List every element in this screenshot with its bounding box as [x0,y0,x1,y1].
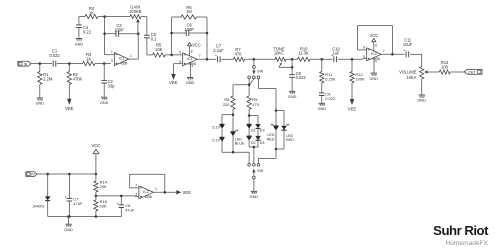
subtitle HomemadeFX [445,240,488,247]
title Suhr Riot [433,223,489,238]
svg-text:100K: 100K [355,76,365,81]
svg-text:1N4001: 1N4001 [32,205,44,209]
capacitor C4 0.22 [76,17,92,39]
node F junction [103,15,106,18]
node L junction [291,58,294,61]
wire left throw down [248,79,250,96]
node A junction [39,62,42,65]
svg-text:VEE: VEE [348,107,357,112]
zener diode 5.1V upper [212,124,224,129]
svg-text:GND: GND [36,102,45,106]
diode D2 [247,136,256,145]
svg-text:HomemadeFX: HomemadeFX [445,240,488,247]
svg-text:6.25K: 6.25K [325,76,336,81]
capacitor C3 100P [105,23,139,37]
wire SW2 pole to ground [253,179,255,191]
wire D3 to D4 [257,128,259,136]
node H junction [170,32,208,35]
pin 4 wire to ground [190,62,192,77]
svg-text:OUT: OUT [468,70,476,74]
label SW2 [257,168,264,173]
ground power [64,224,73,232]
svg-text:GND: GND [250,195,259,199]
LED RED right [282,124,295,142]
pin 8 label [191,49,193,53]
svg-text:SW: SW [257,168,264,173]
VCC symbol IC1b [187,43,200,56]
svg-text:0.022: 0.022 [49,53,60,58]
diode D1 [247,124,256,132]
svg-text:47uF: 47uF [73,201,83,206]
TONE wiper [279,63,292,67]
svg-text:VCC: VCC [369,33,378,38]
input jack IN [18,61,31,66]
pin 4 wire ic2b [373,58,375,73]
svg-text:5: 5 [179,60,181,64]
resistor R6 1M [172,5,207,33]
svg-text:GND: GND [186,81,195,85]
ground under C8 [288,91,297,99]
capacitor C7 47uF power [65,174,83,217]
wire VOLUME to ground [421,79,423,95]
svg-text:1: 1 [155,187,157,191]
diode D4 [256,136,265,145]
svg-text:VCC: VCC [91,143,100,148]
resistor R8 220 [223,96,235,115]
capacitor C2 33p [101,64,115,97]
potentiometer VOLUME 10KA [399,67,424,81]
ground under IC1b [186,78,195,86]
svg-text:0.022: 0.022 [325,96,336,101]
feedback wire IC2b [358,26,393,55]
wire R7 to TONE [245,58,276,60]
ground under C4 [75,39,84,47]
svg-text:20K: 20K [100,184,107,189]
node G junction [170,54,173,57]
svg-text:5.1V: 5.1V [212,125,220,129]
switch SW2 pole circle [253,176,256,179]
svg-text:IN: IN [24,62,28,66]
wire 9V rail [37,173,96,175]
LED RED left [267,124,279,141]
left group bottom rail [222,135,249,163]
resistor R4 1K [79,6,105,19]
svg-text:2.2M: 2.2M [43,77,53,82]
capacitor C11 10uF [403,38,413,58]
svg-text:VEE: VEE [183,190,192,195]
switch SW actuator [252,68,255,74]
svg-text:100KB: 100KB [129,9,142,14]
wire right throw to LEDs [259,79,277,111]
VEE arrow IC1b [169,74,178,85]
svg-text:470: 470 [252,102,259,107]
wire C10 to IC2 pin 5 [338,58,367,61]
middle group bottom rail [249,140,258,164]
node E junction [137,32,140,35]
svg-text:1uF: 1uF [332,51,340,56]
svg-text:0.1: 0.1 [151,37,157,42]
ground under C2 [100,97,109,105]
resistor R7 470 [234,47,245,62]
pin 7 label ic2b [383,49,385,53]
capacitor C6 100P [172,22,207,59]
svg-text:7: 7 [383,49,385,53]
wire VEE tap to IC2a [96,195,139,198]
switch SW throw circles [248,76,260,79]
svg-text:2.2uF: 2.2uF [213,48,224,53]
svg-text:0.22: 0.22 [83,29,92,34]
svg-text:7: 7 [199,54,201,58]
wire R3 to IC1 pin 3 [95,63,111,65]
svg-text:8: 8 [375,43,377,47]
svg-text:IC1: IC1 [187,57,193,61]
middle group top rail [248,114,258,124]
wire IC2b out [381,53,405,55]
pin 2 label [111,50,113,54]
svg-text:10KC: 10KC [274,51,284,56]
svg-text:BLUE: BLUE [235,142,245,146]
svg-text:GND: GND [417,99,426,103]
svg-text:3: 3 [111,59,113,63]
pin 6 label [179,50,181,54]
node T junction [120,195,123,198]
svg-text:4558: 4558 [120,62,128,66]
resistor R10 11.3K [298,46,311,61]
ground under VOLUME [417,95,426,103]
svg-text:5: 5 [363,55,365,59]
diode 1N4001 [32,174,50,217]
VEE arrow under R12 [348,99,357,112]
switch SW2 actuator [252,169,255,177]
svg-text:RED: RED [286,138,294,142]
wire IC1b out [197,58,216,60]
node C junction [103,62,106,65]
svg-text:IC1: IC1 [119,57,125,61]
svg-text:IC2: IC2 [371,52,377,56]
pin 8 label ic2b [375,43,377,47]
GAIN wiper [136,19,139,34]
power jack 9V [26,172,37,177]
svg-text:9V: 9V [30,173,35,177]
wire R10 to C10 [310,58,333,60]
svg-text:4: 4 [375,60,377,64]
wire C11 to VOLUME [410,54,422,66]
wire D1 to D2 [248,128,250,136]
node S junction VEE tap [95,195,98,198]
VEE arrow under R2 [65,99,74,112]
pin 6 label ic2b [363,45,365,49]
ground under C9 [318,103,327,111]
ground under SW2 [250,191,259,199]
potentiometer TONE 10KC [273,46,286,61]
wire IN to node A [31,63,52,65]
node I junction [206,58,209,61]
right group bottom rail [259,130,285,164]
node J junction [253,58,256,61]
svg-text:GND: GND [100,101,109,105]
ground under IC2b [369,73,378,81]
wire C5 to R5 [147,38,153,55]
svg-text:GND: GND [288,95,297,99]
svg-text:4: 4 [191,64,193,68]
svg-text:1: 1 [130,54,132,58]
wire R4 to GAIN [105,16,130,18]
VEE arrow power [176,190,191,195]
svg-text:Suhr Riot: Suhr Riot [433,223,489,238]
wire R13 to OUT [450,71,464,73]
right group top rail [275,109,284,126]
node D junction [103,32,106,35]
resistor R2 470K [67,64,82,99]
label SW [257,69,264,74]
node O junction [391,53,394,56]
node R junction [95,173,98,176]
node P junction [46,173,49,176]
wire R5 to IC1 pin 6 [165,54,183,56]
op-amp IC2b [367,48,382,61]
svg-text:20K: 20K [100,204,107,209]
node U junction [164,191,167,194]
svg-text:D1: D1 [251,128,256,132]
svg-text:8: 8 [191,49,193,53]
svg-text:1K: 1K [86,56,91,61]
svg-text:VEE: VEE [169,80,178,85]
svg-text:47uF: 47uF [125,207,135,212]
node M junction [321,58,324,61]
svg-text:33p: 33p [108,84,116,89]
left group top rail [222,113,234,131]
wire to R8 [233,85,249,96]
svg-text:D2: D2 [251,141,256,145]
capacitor C8 47uF power [117,196,135,217]
VCC symbol IC2b [369,33,378,51]
svg-text:220: 220 [223,102,230,107]
svg-text:VCC: VCC [192,43,201,48]
wire middle throw join [250,79,254,85]
wire node J to SW pole [253,59,255,65]
resistor R14 20K [94,174,108,196]
svg-text:IC2: IC2 [143,190,149,194]
svg-text:4558: 4558 [145,195,153,199]
svg-text:2: 2 [135,183,137,187]
svg-text:5.1V: 5.1V [212,138,220,142]
resistor R5 10K [153,42,165,57]
pin 2 label ic2a [135,183,137,187]
svg-text:D3: D3 [260,128,265,132]
svg-text:1M: 1M [186,9,192,14]
potentiometer GAIN 100KB [129,5,142,19]
pin 5 label [179,60,181,64]
pin 5 wire to VEE [174,64,183,74]
svg-text:0.022: 0.022 [296,75,307,80]
pin 5 label ic2b [363,55,365,59]
node Q junction [68,173,71,176]
op-amp IC2a [139,186,154,199]
node B junction [68,62,71,65]
feedback wire IC2a [130,174,165,192]
capacitor C10 1uF [332,46,341,62]
svg-text:SW: SW [257,69,264,74]
svg-text:D4: D4 [260,141,265,145]
resistor R13 100 [439,60,450,74]
capacitor C7 2.2uF [213,44,224,63]
wire C7 to R7 [222,58,234,60]
pin 3 label [111,59,113,63]
svg-text:3: 3 [135,193,137,197]
svg-text:6: 6 [363,45,365,49]
capacitor C1 0.022 [49,49,60,67]
wire pin 2 feedback [105,17,115,55]
svg-text:10K: 10K [155,47,163,52]
svg-text:100: 100 [441,64,449,69]
node K junction [248,83,251,86]
svg-text:10KA: 10KA [406,75,416,80]
svg-text:1K: 1K [89,11,94,16]
svg-text:2: 2 [111,50,113,54]
switch SW pole circle [253,66,256,69]
svg-text:GND: GND [75,42,84,46]
node N junction [351,58,354,61]
svg-text:100P: 100P [184,27,194,32]
svg-text:470: 470 [235,51,243,56]
VCC rail up [95,154,97,174]
ground under R1 [36,98,45,106]
feedback loop stage2 [171,17,173,55]
diode D3 [256,124,265,132]
pin 3 label ic2a [135,193,137,197]
svg-text:GND: GND [64,228,73,232]
op-amp IC1b [183,53,198,66]
wire TONE to R10 [286,58,298,60]
svg-text:6: 6 [179,50,181,54]
capacitor C9 0.022 [319,91,336,103]
VOLUME wiper [424,70,439,73]
pin 4 label ic2b [375,60,377,64]
svg-text:10uF: 10uF [403,42,413,47]
wire node L down [291,59,294,74]
zener diode 5.1V lower [212,137,224,142]
pin 1 label ic2a [155,187,157,191]
LED BLUE [231,130,245,146]
svg-text:11.3K: 11.3K [298,51,309,56]
wire C1 to R3 [57,63,83,65]
power bottom rail [48,215,122,218]
svg-text:GND: GND [369,77,378,81]
pin 1 label [130,54,132,58]
pin 4 label [191,64,193,68]
switch SW2 throw circles [248,163,260,166]
wire IC2a out [153,191,176,193]
resistor R9 470 [247,96,260,116]
resistor R12 100K [350,59,365,99]
svg-text:VOLUME: VOLUME [399,69,417,74]
resistor R11 6.25K [320,59,336,93]
capacitor C5 0.1 [144,32,157,41]
resistor R15 20K [94,196,108,217]
output jack OUT [464,69,482,74]
op-amp IC1a [114,53,129,66]
svg-text:470K: 470K [73,77,83,82]
capacitor C8 0.022 [289,71,306,91]
svg-text:GND: GND [318,107,327,111]
pin 7 label [199,54,201,58]
resistor R3 1K [83,52,96,66]
VCC symbol power [91,143,100,154]
wire GAIN to C5 [141,17,147,36]
wire rail to ground [67,215,70,224]
svg-text:VEE: VEE [65,106,74,111]
wire IC1a output up [129,34,138,59]
wire between zeners [221,128,223,137]
svg-text:100P: 100P [114,28,124,33]
svg-text:RED: RED [267,137,275,141]
resistor R1 2.2M [38,64,53,98]
